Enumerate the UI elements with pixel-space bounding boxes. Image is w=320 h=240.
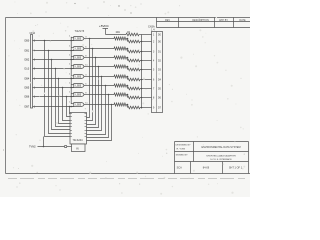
resistor R2 series bbox=[114, 47, 127, 50]
svg-text:APP. BY: APP. BY bbox=[219, 19, 228, 22]
svg-text:LS05: LS05 bbox=[76, 94, 82, 97]
wire row 4 CN2 to gate bbox=[33, 78, 74, 80]
svg-text:S.C.D.S. INTERFACE: S.C.D.S. INTERFACE bbox=[210, 158, 232, 161]
wire row 2 tap down to U2 right pin bbox=[87, 58, 96, 125]
wire row 7 tap down to U2 right pin bbox=[87, 105, 112, 141]
pin tick U2 right 7 bbox=[85, 133, 87, 135]
svg-text:R. YOMI: R. YOMI bbox=[177, 149, 186, 151]
svg-text:SIGNED BY:: SIGNED BY: bbox=[176, 154, 189, 156]
gate U1E bbox=[69, 74, 89, 80]
wire row 7 gate output bbox=[89, 104, 114, 106]
wire row 0 gate output bbox=[89, 38, 114, 40]
svg-text:10Ω: 10Ω bbox=[116, 32, 121, 34]
pin tick U2 left 3 bbox=[70, 120, 72, 122]
wire row 0 branch down to U2 left pin bbox=[45, 41, 71, 137]
pin tick U2 right 8 bbox=[85, 136, 87, 138]
svg-text:SHT 1 OF 1: SHT 1 OF 1 bbox=[229, 167, 243, 170]
wire row 0 CN2 to gate bbox=[33, 40, 74, 42]
pin tick U2 right 1 bbox=[85, 113, 87, 115]
resistor RP3 second stage bbox=[127, 58, 129, 61]
wire row 3 tap down to U2 right pin bbox=[87, 67, 99, 128]
resistor RP5 second stage bbox=[127, 77, 129, 80]
connector CN3A (right) bbox=[148, 25, 163, 112]
gate U1D bbox=[69, 64, 89, 70]
wire row 4 to CN3 pin bbox=[140, 79, 152, 81]
pin tick U2 left 8 bbox=[70, 136, 72, 138]
wire row 2 CN2 to gate bbox=[33, 59, 74, 61]
wire row 0 to CN3 pin bbox=[140, 41, 152, 43]
wire row 1 to CN3 pin bbox=[140, 51, 152, 53]
revision table bbox=[157, 18, 251, 28]
svg-text:DATE: DATE bbox=[239, 19, 246, 22]
svg-text:1R: 1R bbox=[127, 32, 130, 34]
wire row 7 branch down to U2 left pin bbox=[69, 107, 72, 114]
resistor RP2 second stage bbox=[127, 49, 129, 52]
wire row 5 to CN3 pin bbox=[140, 88, 152, 90]
resistor RP8 second stage bbox=[127, 105, 129, 108]
pin tick U2 left 5 bbox=[70, 126, 72, 128]
wire row 2 branch down to U2 left pin bbox=[52, 60, 71, 130]
IC U2 74LS244 bbox=[70, 113, 87, 152]
pin tick U2 left 2 bbox=[70, 116, 72, 118]
wire row 3 gate output bbox=[89, 66, 114, 68]
resistor R7 series bbox=[114, 93, 127, 96]
svg-text:+5VDC: +5VDC bbox=[99, 24, 110, 28]
pin tick U2 right 2 bbox=[85, 116, 87, 118]
wire row 5 tap down to U2 right pin bbox=[87, 86, 106, 135]
resistor R6 series bbox=[114, 84, 127, 87]
svg-text:SHORTED-CABLE ADAPTER: SHORTED-CABLE ADAPTER bbox=[206, 154, 236, 157]
resistor RP1 second stage bbox=[127, 39, 129, 42]
resistor R1 series bbox=[114, 37, 127, 40]
svg-text:SCA: SCA bbox=[177, 167, 182, 170]
svg-text:DESIGNED BY: DESIGNED BY bbox=[176, 145, 191, 147]
node +5V bus bbox=[141, 35, 143, 109]
svg-text:IN: IN bbox=[76, 148, 79, 151]
resistor RP6 second stage bbox=[127, 86, 129, 89]
wire row 1 gate output bbox=[89, 48, 114, 50]
svg-text:DB7: DB7 bbox=[25, 106, 30, 109]
pin tick U2 left 7 bbox=[70, 133, 72, 135]
resistor RP7 second stage bbox=[127, 95, 129, 98]
pin tick U2 left 6 bbox=[70, 130, 72, 132]
wire to CN3 pin 1 bbox=[139, 34, 152, 36]
title block bbox=[175, 142, 249, 174]
svg-text:LS05: LS05 bbox=[76, 85, 82, 88]
svg-text:DB6: DB6 bbox=[25, 96, 30, 99]
wire row 7 to CN3 pin bbox=[140, 107, 152, 109]
svg-text:DB2: DB2 bbox=[25, 59, 30, 62]
resistor R9 bbox=[126, 33, 139, 36]
resistor RP4 second stage bbox=[127, 67, 129, 70]
svg-text:LS05: LS05 bbox=[76, 66, 82, 69]
power +5VDC bbox=[99, 24, 110, 35]
svg-text:1 4: 1 4 bbox=[151, 29, 155, 32]
connector CN2 (left) bbox=[25, 31, 36, 109]
wire row 6 gate output bbox=[89, 94, 114, 96]
gate U1C bbox=[69, 55, 89, 61]
gate U1H bbox=[69, 102, 89, 108]
resistor R4 series bbox=[114, 65, 127, 68]
wire row 3 CN2 to gate bbox=[33, 68, 74, 70]
svg-text:LS05: LS05 bbox=[76, 48, 82, 51]
wire row 4 tap down to U2 right pin bbox=[87, 77, 102, 131]
svg-text:LS05: LS05 bbox=[76, 57, 82, 60]
pin tick U2 right 6 bbox=[85, 130, 87, 132]
svg-text:TVM2: TVM2 bbox=[29, 146, 36, 149]
resistor R8 series bbox=[114, 103, 127, 106]
pin tick U2 right 5 bbox=[85, 126, 87, 128]
svg-text:ENVIRONMENTAL DATA SYSTEM: ENVIRONMENTAL DATA SYSTEM bbox=[201, 146, 240, 149]
wire row 1 CN2 to gate bbox=[33, 50, 74, 52]
svg-text:DB4: DB4 bbox=[25, 78, 30, 81]
resistor R5 series bbox=[114, 75, 127, 78]
wire row 5 gate output bbox=[89, 85, 114, 87]
wire row 1 tap down to U2 right pin bbox=[87, 49, 93, 121]
gate U1F bbox=[69, 83, 89, 89]
pin tick U2 right 3 bbox=[85, 120, 87, 122]
wire row 4 gate output bbox=[89, 76, 114, 78]
svg-text:74LS05: 74LS05 bbox=[75, 29, 85, 33]
wire row 2 gate output bbox=[89, 57, 114, 59]
resistor R3 series bbox=[114, 56, 127, 59]
wire row 2 to CN3 pin bbox=[140, 60, 152, 62]
wire row 6 tap down to U2 right pin bbox=[87, 95, 109, 138]
wire row 6 to CN3 pin bbox=[140, 97, 152, 99]
gate U1B bbox=[69, 46, 89, 52]
pin tick U2 right 4 bbox=[85, 123, 87, 125]
wire gate input tie vertical bbox=[70, 37, 72, 104]
wire +5V feed bbox=[106, 34, 127, 36]
wire row 5 branch down to U2 left pin bbox=[63, 88, 71, 121]
svg-text:LS05: LS05 bbox=[76, 38, 82, 41]
svg-text:REV: REV bbox=[165, 19, 170, 22]
svg-text:DB1: DB1 bbox=[25, 50, 30, 53]
pin tick U2 left 1 bbox=[70, 113, 72, 115]
svg-text:LS05: LS05 bbox=[76, 104, 82, 107]
wire row 6 branch down to U2 left pin bbox=[67, 97, 71, 117]
wire row 4 branch down to U2 left pin bbox=[59, 79, 71, 124]
wire row 3 to CN3 pin bbox=[140, 69, 152, 71]
gate U1G bbox=[69, 92, 89, 98]
border frame bbox=[6, 18, 251, 174]
wire row 6 CN2 to gate bbox=[33, 96, 74, 98]
svg-text:84-09: 84-09 bbox=[203, 167, 210, 170]
wire row 3 branch down to U2 left pin bbox=[56, 69, 71, 127]
svg-text:DESCRIPTION: DESCRIPTION bbox=[192, 19, 209, 22]
svg-text:DB5: DB5 bbox=[25, 87, 30, 90]
pin tick U2 left 4 bbox=[70, 123, 72, 125]
wire row 0 tap down to U2 right pin bbox=[87, 39, 90, 118]
svg-text:DB0: DB0 bbox=[25, 40, 30, 43]
node TVM2 bbox=[29, 137, 72, 149]
wire row 1 branch down to U2 left pin bbox=[49, 51, 71, 134]
svg-text:74LS244: 74LS244 bbox=[73, 139, 84, 142]
wire row 7 CN2 to gate bbox=[33, 106, 74, 108]
wire row 5 CN2 to gate bbox=[33, 87, 74, 89]
gate U1A bbox=[69, 36, 89, 42]
svg-text:LS05: LS05 bbox=[76, 76, 82, 79]
